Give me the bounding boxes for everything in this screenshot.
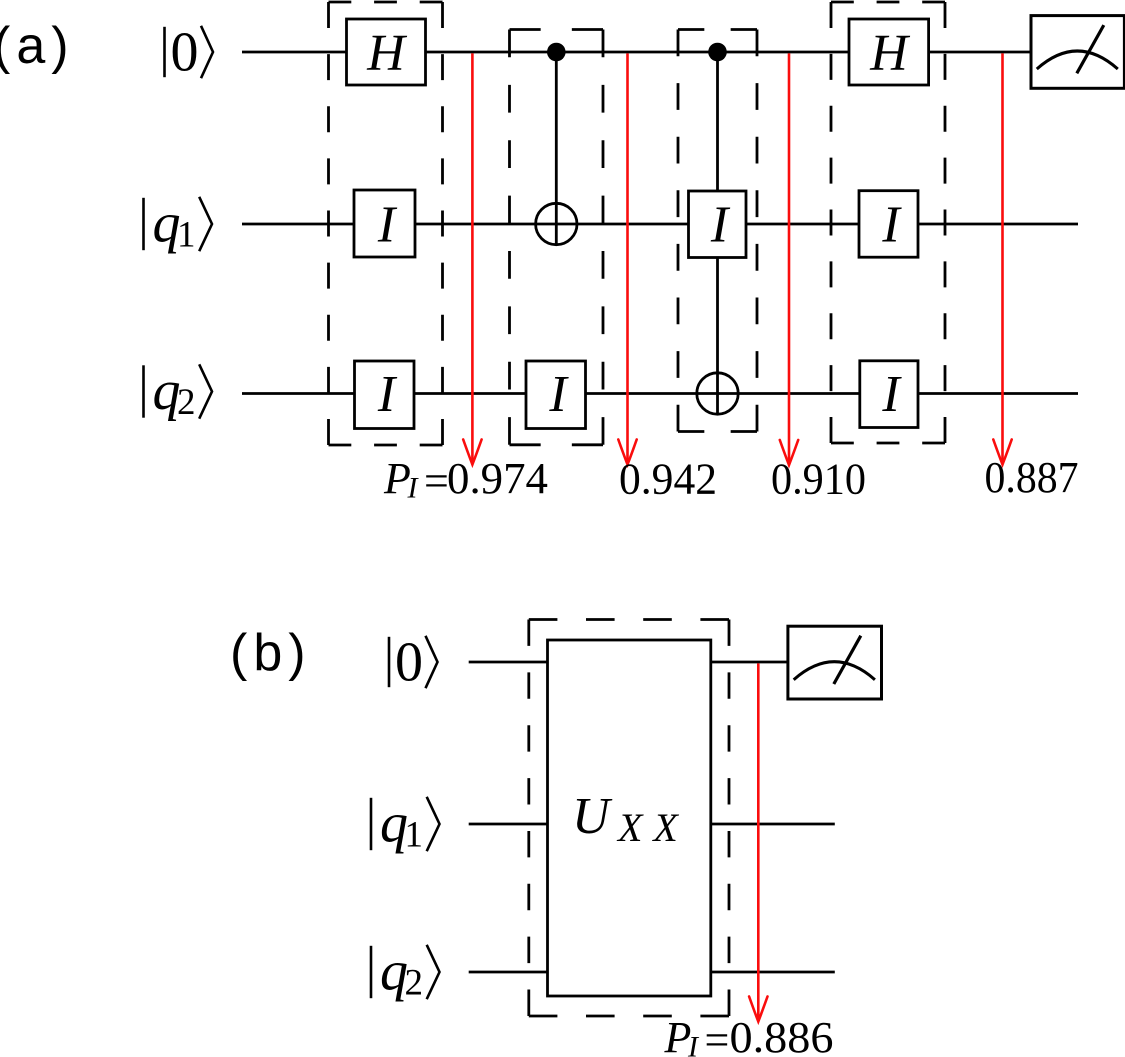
red arrow 4 (a) (993, 53, 1011, 464)
measurement meter (b) (788, 626, 882, 699)
svg-text:XX: XX (616, 805, 689, 850)
red arrow 1 (a) (463, 53, 481, 464)
wire q0 (a) (242, 51, 1031, 54)
wire q1 left (b) (469, 823, 549, 826)
svg-text:I: I (687, 1031, 700, 1057)
dashed group box 1 (a) (329, 2, 443, 445)
label P_I=0.886 (664, 1013, 834, 1057)
qubit label |q1> (b) (371, 793, 440, 856)
qubit label |q2> (b) (371, 941, 440, 1004)
dashed group box (b) (529, 620, 729, 1017)
svg-text:0: 0 (395, 632, 423, 694)
panel label (a) (0, 17, 75, 75)
red arrow (b) (749, 663, 767, 1021)
svg-text:0.942: 0.942 (619, 455, 717, 504)
gate H (box1 q0) (347, 19, 426, 85)
svg-text:I: I (881, 196, 902, 253)
label 0.942 (619, 455, 717, 504)
dashed group box 3 (a) (678, 30, 757, 432)
wire q2 right (b) (710, 971, 835, 974)
svg-text:U: U (572, 788, 613, 845)
label 0.910 (771, 455, 866, 504)
dashed group box 2 (a) (510, 30, 604, 445)
wire q2 left (b) (469, 971, 549, 974)
wire q0 right (b) (710, 661, 788, 664)
gate I (box1 q2) (355, 361, 415, 429)
svg-text:H: H (869, 25, 910, 82)
CNOT control q0 target q1 (536, 43, 577, 245)
svg-text:0.910: 0.910 (771, 455, 866, 504)
gate I (box3 q1) (689, 191, 747, 258)
qubit label |0> (a) (165, 22, 214, 84)
wire q0 left (b) (469, 661, 549, 664)
gate I (box4 q2) (860, 361, 918, 428)
svg-text:I: I (710, 196, 731, 253)
svg-text:I: I (407, 472, 420, 505)
svg-text:=: = (705, 1016, 730, 1057)
svg-text:I: I (881, 366, 902, 423)
svg-text:(a): (a) (0, 17, 75, 75)
gate U_XX (b) (548, 640, 711, 996)
svg-text:0.974: 0.974 (447, 454, 548, 503)
svg-text:2: 2 (177, 382, 196, 423)
gate H (box4 q0) (849, 19, 929, 85)
qubit label |q1> (a) (144, 193, 213, 256)
svg-text:0: 0 (171, 22, 199, 84)
CNOT control q0 target q2 (697, 43, 738, 415)
svg-text:I: I (548, 366, 569, 423)
svg-text:=: = (424, 457, 449, 506)
wire q2 (a) (242, 392, 1078, 395)
qubit label |0> (b) (389, 632, 438, 694)
gate I (box4 q1) (859, 191, 918, 258)
gate I (box2 q2) (526, 361, 586, 429)
wire q1 (a) (242, 223, 1078, 226)
red arrow 2 (a) (618, 53, 636, 464)
measurement meter (a) (1031, 16, 1124, 89)
svg-text:H: H (366, 25, 407, 82)
gate I (box1 q1) (354, 190, 415, 257)
panel label (b) (230, 624, 312, 682)
qubit label |q2> (a) (144, 360, 213, 423)
svg-text:2: 2 (405, 963, 424, 1004)
label 0.887 (985, 453, 1079, 502)
svg-text:I: I (377, 196, 398, 253)
svg-text:1: 1 (405, 815, 424, 856)
dashed group box 4 (a) (831, 2, 945, 443)
svg-text:0.886: 0.886 (730, 1013, 834, 1057)
svg-text:0.887: 0.887 (985, 453, 1079, 502)
svg-text:1: 1 (177, 215, 196, 256)
svg-text:(b): (b) (230, 624, 312, 682)
red arrow 3 (a) (780, 53, 798, 465)
label P_I=0.974 (383, 454, 548, 506)
svg-text:I: I (377, 366, 398, 423)
wire q1 right (b) (710, 823, 835, 826)
